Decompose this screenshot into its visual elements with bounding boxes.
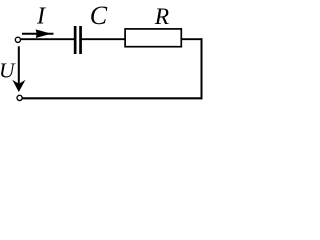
voltage arrow U head	[14, 81, 25, 91]
wire right vertical	[201, 38, 203, 99]
wire: capacitor to resistor	[82, 38, 126, 40]
svg-text:R: R	[154, 4, 169, 30]
wire bottom	[23, 97, 203, 99]
voltage arrow U shaft	[18, 46, 20, 87]
terminal node bottom-left	[17, 95, 22, 100]
svg-text:C: C	[90, 1, 108, 30]
capacitor C1 plates	[74, 26, 77, 54]
svg-text:U: U	[0, 59, 16, 83]
current arrow I shaft	[22, 33, 54, 35]
current arrow I head	[37, 30, 50, 37]
wire top: terminal to capacitor	[21, 38, 75, 40]
resistor R1 box	[125, 29, 181, 47]
svg-text:I: I	[36, 4, 46, 30]
terminal node top-left	[15, 37, 20, 42]
wire: resistor to top-right corner	[182, 38, 203, 40]
